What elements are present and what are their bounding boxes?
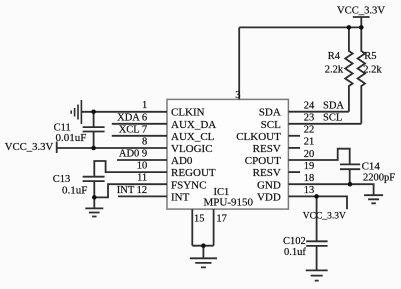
svg-text:23: 23 xyxy=(304,113,315,124)
svg-text:RESV: RESV xyxy=(253,143,281,155)
wire VDD node down to C102 xyxy=(316,196,318,241)
svg-text:CLKIN: CLKIN xyxy=(171,107,205,119)
svg-text:0.1uf: 0.1uf xyxy=(284,247,306,258)
ground symbol below C102 xyxy=(306,270,328,280)
junction node C11 top xyxy=(91,110,96,115)
svg-text:0.01uF: 0.01uF xyxy=(56,132,87,144)
wire pin 13 VDD xyxy=(288,195,316,197)
svg-text:SDA: SDA xyxy=(259,107,281,119)
svg-text:REGOUT: REGOUT xyxy=(171,167,216,179)
svg-text:VCC_3.3V: VCC_3.3V xyxy=(337,5,385,16)
svg-text:MPU-9150: MPU-9150 xyxy=(204,197,254,209)
svg-text:22: 22 xyxy=(304,125,315,136)
junction node C14 bottom xyxy=(348,182,353,187)
svg-text:17: 17 xyxy=(216,213,227,224)
wire pin 3 vertical to top rail xyxy=(238,27,240,99)
wire joining pins 15 and 17 xyxy=(192,246,213,259)
wire C11 bottom to VLOGIC node xyxy=(93,132,95,149)
resistor R5 xyxy=(358,27,365,123)
svg-text:R4: R4 xyxy=(328,51,341,62)
power VCC_3.3V top symbol bar xyxy=(353,17,370,27)
wire pin 12 INT stub xyxy=(118,195,167,197)
svg-text:XCL 7: XCL 7 xyxy=(119,124,148,135)
svg-text:INT 12: INT 12 xyxy=(117,185,147,196)
svg-text:21: 21 xyxy=(304,137,315,148)
wire pin 15 xyxy=(191,209,193,246)
svg-text:11: 11 xyxy=(137,173,147,184)
junction node R5 top xyxy=(359,25,364,30)
wire pin 10 REGOUT to C13 top xyxy=(94,161,167,177)
capacitor C13 plates xyxy=(83,177,105,209)
svg-text:1: 1 xyxy=(142,100,147,111)
wire pin 23 SCL xyxy=(288,123,361,125)
IC IC1 MPU-9150 body xyxy=(167,99,288,209)
power VCC_3.3V left tick xyxy=(56,142,58,154)
svg-text:24: 24 xyxy=(304,100,315,111)
svg-text:0.1uF: 0.1uF xyxy=(62,185,87,197)
svg-text:2.2k: 2.2k xyxy=(363,64,382,75)
svg-text:C14: C14 xyxy=(362,161,381,173)
wire pin 11 FSYNC to C13 ground node xyxy=(94,184,167,197)
junction node VDD xyxy=(314,194,319,199)
svg-text:CPOUT: CPOUT xyxy=(245,155,281,167)
wire C11 top to pin1 node xyxy=(93,112,95,127)
junction node C11 bottom xyxy=(91,146,96,151)
wire pin 24 SDA xyxy=(288,111,349,113)
svg-text:GND: GND xyxy=(257,179,281,191)
svg-text:SCL: SCL xyxy=(323,113,342,124)
svg-text:AUX_DA: AUX_DA xyxy=(171,119,216,131)
svg-text:INT: INT xyxy=(171,191,190,203)
wire pin 21 stub xyxy=(288,147,300,149)
svg-text:C13: C13 xyxy=(53,174,71,185)
junction node R4 top xyxy=(347,25,352,30)
ground symbol right of C14 xyxy=(364,195,383,203)
capacitor C11 plates xyxy=(83,127,105,131)
wire pin 18 GND xyxy=(288,184,373,195)
wire pin 6 XDA stub xyxy=(112,123,167,125)
capacitor C102 plates xyxy=(306,241,327,270)
svg-text:15: 15 xyxy=(194,213,205,224)
wire pin 20 CPOUT to C14 xyxy=(288,149,349,165)
ground symbol below C13 xyxy=(85,208,103,216)
wire pin 19 stub xyxy=(288,171,300,173)
svg-text:R5: R5 xyxy=(364,51,376,62)
ground symbol below pins 15 17 xyxy=(190,258,217,267)
svg-text:CLKOUT: CLKOUT xyxy=(236,131,281,143)
ground symbol rotated at pin 1 CLKIN xyxy=(71,100,81,124)
svg-text:FSYNC: FSYNC xyxy=(171,179,206,191)
svg-text:C102: C102 xyxy=(283,236,306,247)
svg-text:2.2k: 2.2k xyxy=(325,64,344,75)
wire top rail to VCC xyxy=(239,26,362,28)
wire pin 7 XCL stub xyxy=(112,135,167,137)
svg-text:AD0: AD0 xyxy=(171,155,193,167)
capacitor C14 plates xyxy=(340,164,360,184)
svg-text:AD0 9: AD0 9 xyxy=(119,149,147,160)
wire VDD node to VCC label tick xyxy=(317,196,347,209)
svg-text:2200pF: 2200pF xyxy=(363,173,395,184)
svg-text:VCC_3.3V: VCC_3.3V xyxy=(303,212,346,222)
svg-text:XDA 6: XDA 6 xyxy=(117,112,147,123)
wire pin 22 stub xyxy=(288,135,300,137)
svg-text:AUX_CL: AUX_CL xyxy=(171,131,215,143)
wire pin 1 CLKIN xyxy=(81,111,167,113)
wire pin 17 xyxy=(213,209,215,246)
svg-text:VDD: VDD xyxy=(257,191,281,203)
svg-text:SDA: SDA xyxy=(323,100,344,111)
svg-text:VCC_3.3V: VCC_3.3V xyxy=(5,141,54,153)
junction node C13 ground xyxy=(92,195,97,200)
svg-text:19: 19 xyxy=(304,161,315,172)
svg-text:SCL: SCL xyxy=(261,119,281,131)
svg-text:3: 3 xyxy=(235,90,240,101)
svg-text:18: 18 xyxy=(304,173,315,184)
wire pin 8 VLOGIC xyxy=(57,147,167,149)
wire pin 9 AD0 stub xyxy=(117,159,167,161)
svg-text:20: 20 xyxy=(304,149,315,160)
svg-text:8: 8 xyxy=(142,136,147,147)
junction node pins 15-17 ground xyxy=(201,243,206,248)
resistor R4 xyxy=(345,27,352,111)
svg-text:RESV: RESV xyxy=(253,167,281,179)
svg-text:10: 10 xyxy=(137,161,148,172)
svg-text:VLOGIC: VLOGIC xyxy=(171,143,213,155)
svg-text:13: 13 xyxy=(304,185,315,196)
